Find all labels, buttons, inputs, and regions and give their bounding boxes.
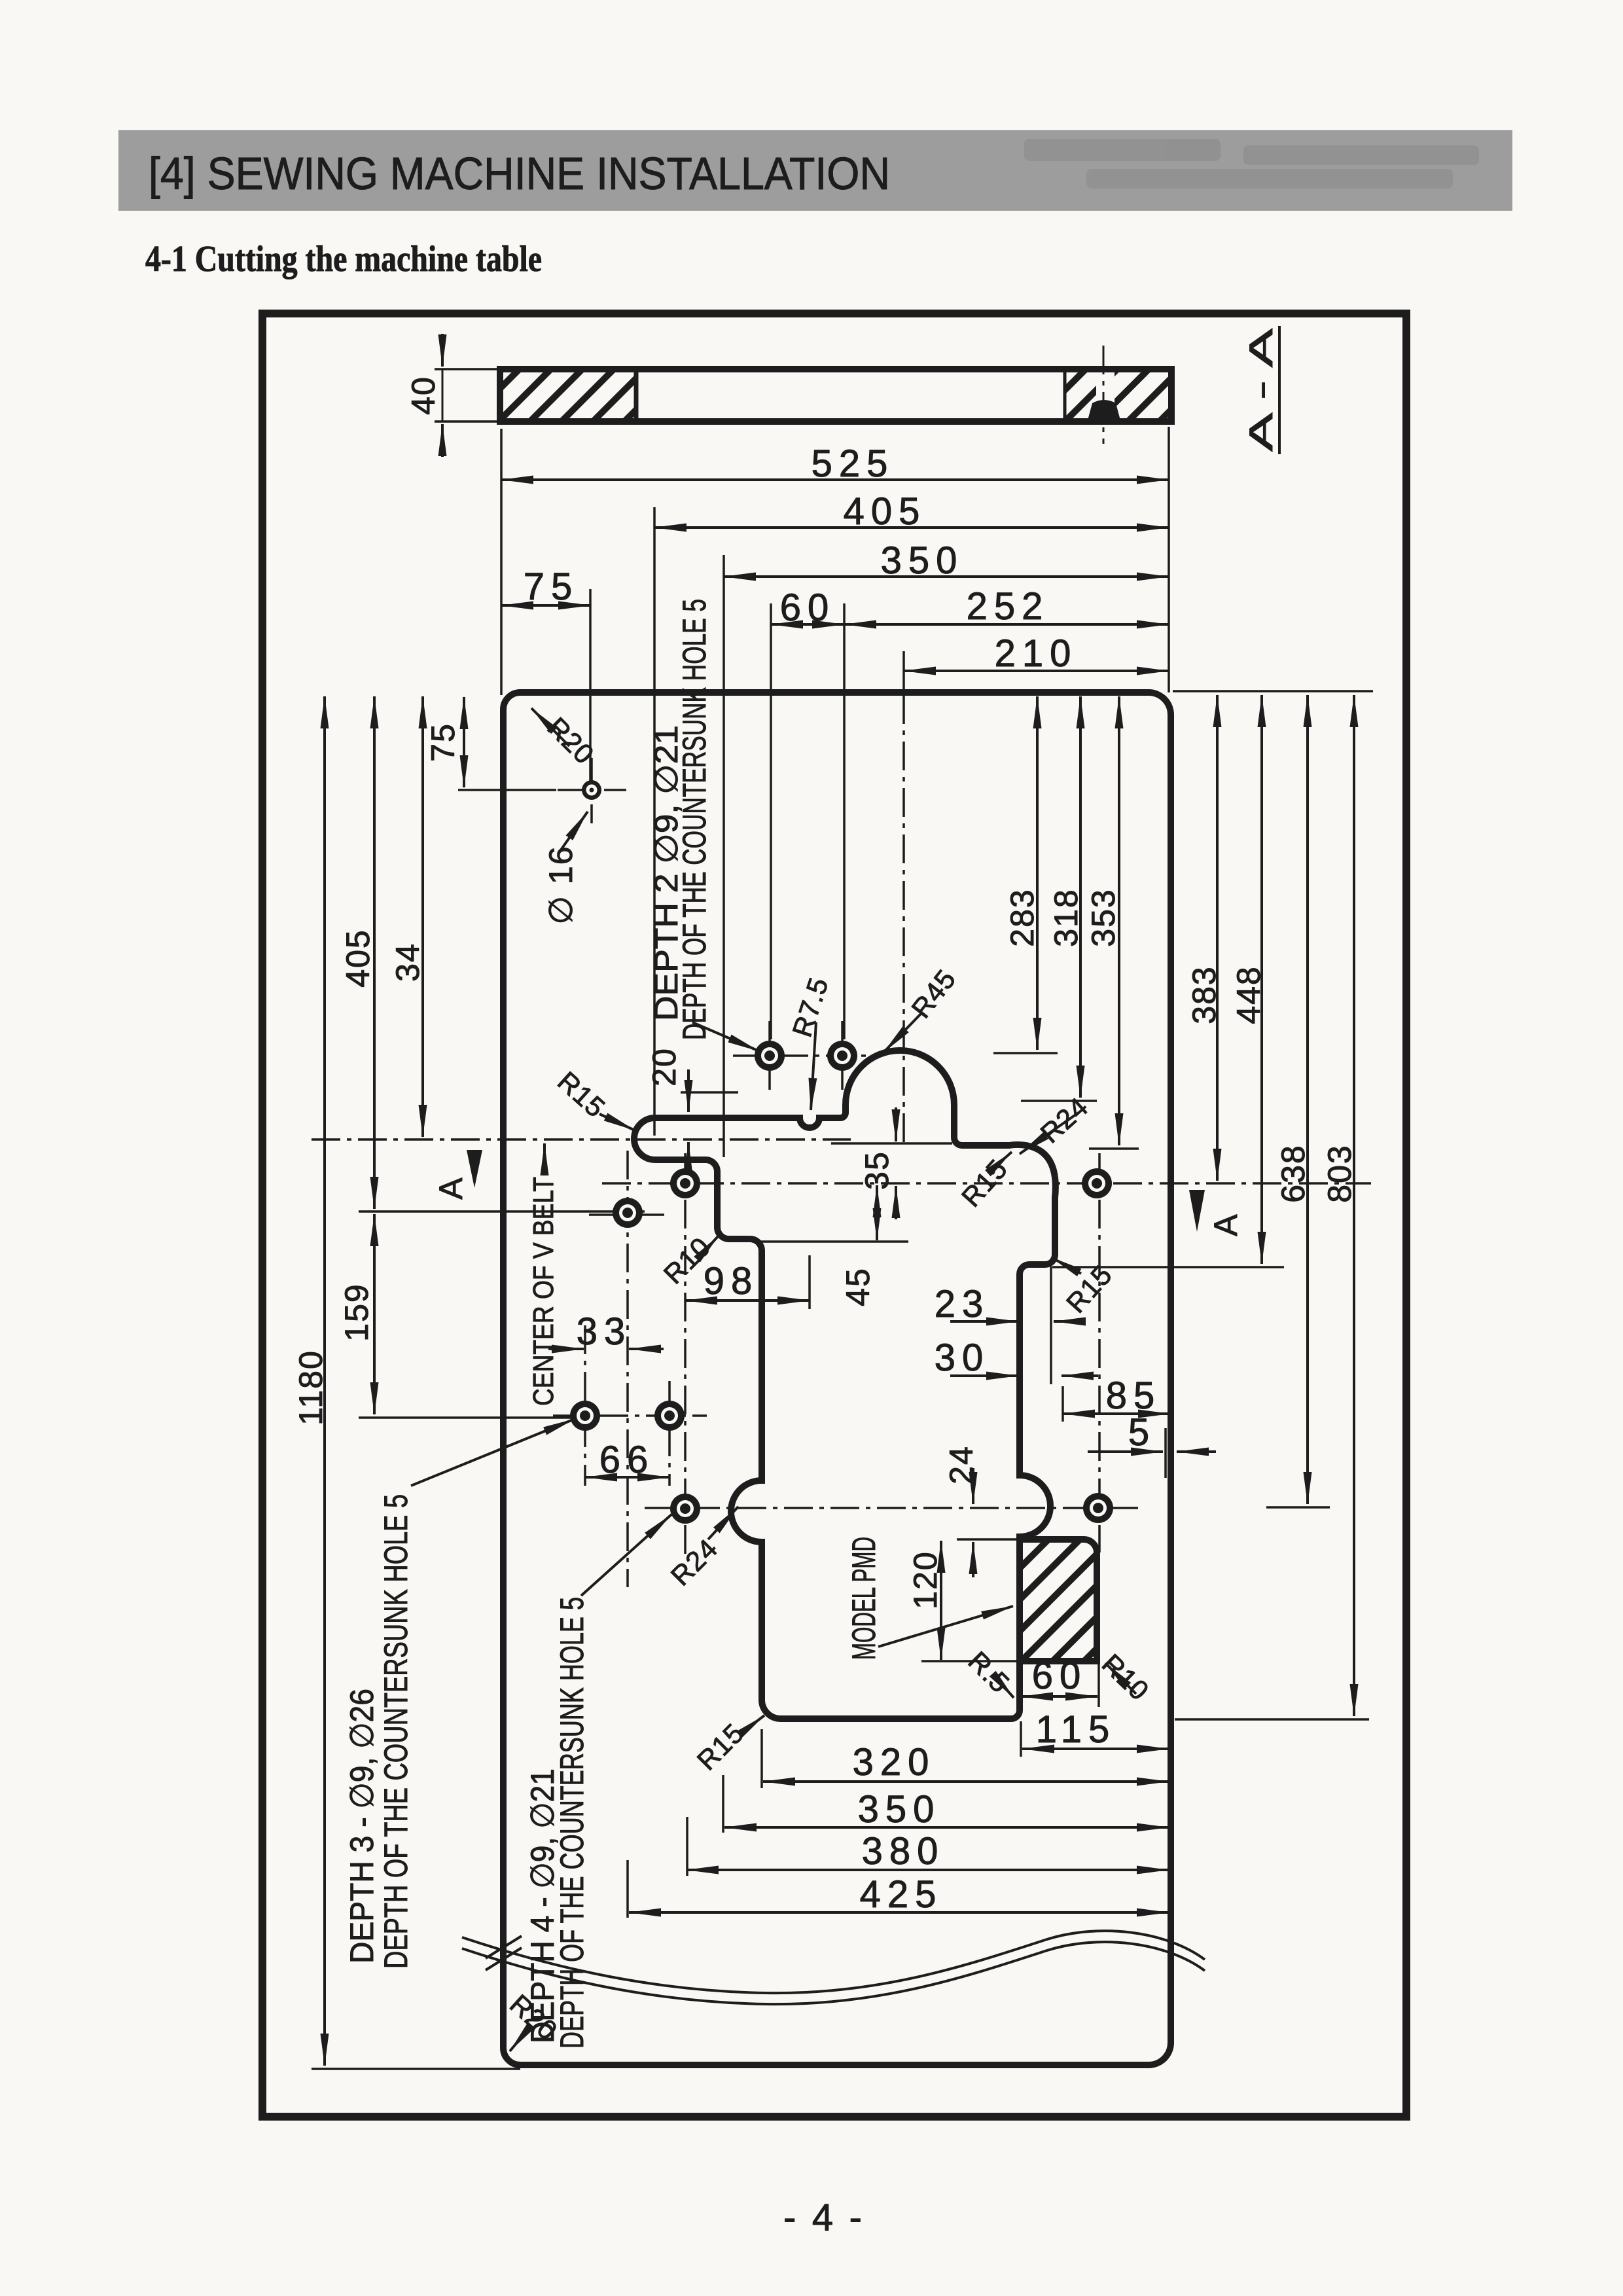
svg-text:350: 350 xyxy=(881,539,964,582)
svg-text:DEPTH OF THE COUNTERSUNK HOLE: DEPTH OF THE COUNTERSUNK HOLE 5 xyxy=(378,1494,414,1969)
svg-text:MODEL PMD: MODEL PMD xyxy=(846,1537,882,1660)
svg-text:318: 318 xyxy=(1048,888,1084,946)
svg-text:R15: R15 xyxy=(955,1153,1014,1213)
svg-text:5: 5 xyxy=(1128,1411,1156,1454)
svg-text:∅ 16: ∅ 16 xyxy=(543,845,579,924)
svg-text:405: 405 xyxy=(844,490,927,533)
svg-text:DEPTH OF THE COUNTERSUNK HOLE: DEPTH OF THE COUNTERSUNK HOLE 5 xyxy=(676,599,713,1040)
svg-text:115: 115 xyxy=(1036,1708,1116,1751)
svg-text:34: 34 xyxy=(389,942,426,982)
svg-text:33: 33 xyxy=(577,1310,632,1353)
svg-text:405: 405 xyxy=(340,929,376,987)
svg-text:383: 383 xyxy=(1186,965,1222,1024)
svg-text:98: 98 xyxy=(704,1260,759,1302)
svg-text:R15: R15 xyxy=(691,1717,750,1776)
svg-text:45: 45 xyxy=(840,1267,876,1306)
svg-text:1180: 1180 xyxy=(293,1350,329,1426)
svg-text:425: 425 xyxy=(860,1873,943,1916)
svg-text:60: 60 xyxy=(780,586,836,629)
svg-text:R7.5: R7.5 xyxy=(787,973,834,1041)
svg-text:638: 638 xyxy=(1275,1144,1311,1202)
svg-text:40: 40 xyxy=(405,376,442,415)
svg-text:23: 23 xyxy=(935,1283,990,1325)
svg-text:353: 353 xyxy=(1085,888,1122,946)
svg-text:4-1 Cutting the machine table: 4-1 Cutting the machine table xyxy=(145,239,542,279)
svg-text:R24: R24 xyxy=(1035,1091,1094,1149)
svg-text:283: 283 xyxy=(1004,888,1041,946)
svg-text:R10: R10 xyxy=(1096,1648,1155,1706)
svg-text:R45: R45 xyxy=(905,963,961,1024)
svg-text:35: 35 xyxy=(859,1151,895,1190)
svg-text:A - A: A - A xyxy=(1243,328,1279,452)
svg-text:252: 252 xyxy=(967,585,1050,628)
svg-text:448: 448 xyxy=(1230,965,1267,1024)
svg-text:350: 350 xyxy=(858,1788,941,1831)
svg-text:75: 75 xyxy=(425,723,461,762)
svg-text:A: A xyxy=(433,1177,469,1200)
svg-text:CENTER OF V BELT: CENTER OF V BELT xyxy=(527,1177,560,1406)
svg-text:66: 66 xyxy=(599,1439,655,1481)
svg-text:380: 380 xyxy=(862,1830,945,1873)
svg-text:DEPTH OF THE COUNTERSUNK HOLE: DEPTH OF THE COUNTERSUNK HOLE 5 xyxy=(554,1597,590,2049)
svg-text:20: 20 xyxy=(646,1047,683,1086)
svg-text:320: 320 xyxy=(853,1741,936,1784)
svg-text:159: 159 xyxy=(338,1283,375,1341)
svg-text:120: 120 xyxy=(907,1551,944,1609)
svg-text:[4] SEWING MACHINE INSTALLATIO: [4] SEWING MACHINE INSTALLATION xyxy=(149,148,890,199)
svg-text:525: 525 xyxy=(811,442,895,485)
svg-text:A: A xyxy=(1207,1214,1244,1236)
svg-text:30: 30 xyxy=(935,1336,990,1379)
svg-text:24: 24 xyxy=(943,1445,980,1484)
svg-text:60: 60 xyxy=(1032,1655,1088,1697)
svg-text:DEPTH 3 - ∅9, ∅26: DEPTH 3 - ∅9, ∅26 xyxy=(344,1689,380,1964)
svg-text:210: 210 xyxy=(995,632,1078,675)
svg-text:- 4 -: - 4 - xyxy=(783,2197,868,2239)
svg-text:803: 803 xyxy=(1321,1144,1358,1202)
svg-text:75: 75 xyxy=(524,565,579,608)
svg-text:R24: R24 xyxy=(665,1533,724,1592)
